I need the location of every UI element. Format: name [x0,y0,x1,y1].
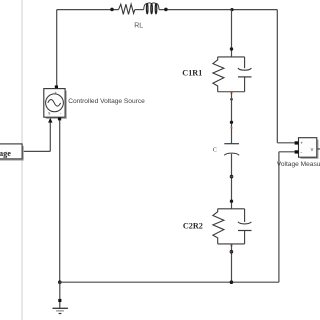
port orange C2R2 bottom [231,245,233,247]
wire chain vertical top (junction to C1R1) [231,10,233,57]
svg-text:+: + [54,90,57,95]
svg-text:v: v [311,147,314,153]
input voltage block shadow [0,146,23,160]
node dot left of RL [110,8,114,12]
svg-text:s: s [48,111,50,116]
capacitor C2 rail bottom [244,231,246,244]
svg-text:C2R2: C2R2 [183,221,203,230]
capacitor C1 rail bottom [244,77,246,92]
inductor loop 3 [155,4,157,14]
node dot top junction to C1R1 branch [230,8,233,11]
port orange C1R1 bottom [231,92,233,94]
figure edge faint line [21,0,23,320]
sine wave [48,100,61,107]
wire from VM - port [279,151,295,153]
controlled voltage source shadow [46,91,66,119]
port dot C2R2 top [230,200,233,203]
wire C1R1 to C [231,92,233,144]
svg-text:RL: RL [134,23,143,30]
controlled voltage source U1 body [44,89,65,118]
svg-text:C: C [213,147,217,154]
wire to VM + port [277,142,294,144]
svg-text:+: + [300,141,303,146]
wire to ground [59,282,61,299]
VM output stub [317,148,320,150]
inductor loop 1 [146,4,148,14]
port open dot below C [230,175,233,178]
ground symbol [53,307,68,309]
source circle [46,94,64,112]
capacitor C straight plate [224,143,239,145]
capacitor C curved plate [224,153,239,155]
port dot below C1R1 [230,98,233,101]
C1R1 block bottom bar [218,91,245,93]
wire C2R2 to bottom [231,244,233,282]
resistor RL zigzag [119,4,135,14]
resistor R1 zigzag [213,57,224,92]
wire s input horizontal [22,150,50,152]
inductor coil [144,3,159,10]
wire right vertical top [276,10,278,143]
signal input arrow into source [48,118,52,123]
node dot right of RL [164,8,168,12]
wire s input vertical [49,122,51,151]
C2R2 block bottom bar [218,243,245,245]
capacitor C2 rail top [244,209,246,222]
capacitor C2 straight plate [238,230,252,232]
node junction bottom chain [230,280,234,284]
ground port square [58,299,61,302]
port square source - [58,118,61,121]
input voltage block (clipped) [0,144,22,159]
wire C to C2R2 [231,154,233,209]
wire top horizontal right [159,9,277,11]
wire bottom horizontal [60,281,279,283]
VM + port stub [295,141,299,144]
resistor R2 zigzag [213,209,224,244]
capacitor C1 straight plate [238,76,252,78]
svg-text:age: age [0,149,11,158]
capacitor C2 curved plate [238,222,252,224]
capacitor C1 curved plate [238,68,252,70]
wire left vertical to source [56,10,58,86]
port dot C1R1 top [230,47,233,50]
wire source minus down [59,120,61,282]
svg-text:C1R1: C1R1 [182,69,202,78]
node junction bottom left [58,280,62,284]
wire right vertical bottom [278,152,280,282]
port orange C top [231,127,233,129]
port dot C top [230,121,233,124]
voltage measurement block body [299,138,317,158]
wire top horizontal left [57,9,119,11]
port open dot below C2R2 [230,250,233,253]
wire between R and L [135,9,144,11]
ground stem [59,302,61,308]
C1R1 block top bar [218,56,245,58]
voltage measurement block shadow [301,140,318,159]
capacitor C1 rail top [244,57,246,68]
VM - port stub [295,150,299,153]
svg-text:Controlled Voltage Source: Controlled Voltage Source [68,98,145,105]
port square source + [55,85,58,88]
C2R2 block top bar [218,208,245,210]
inductor loop 2 [151,4,153,14]
svg-text:Voltage Measurement: Voltage Measurement [277,161,320,168]
